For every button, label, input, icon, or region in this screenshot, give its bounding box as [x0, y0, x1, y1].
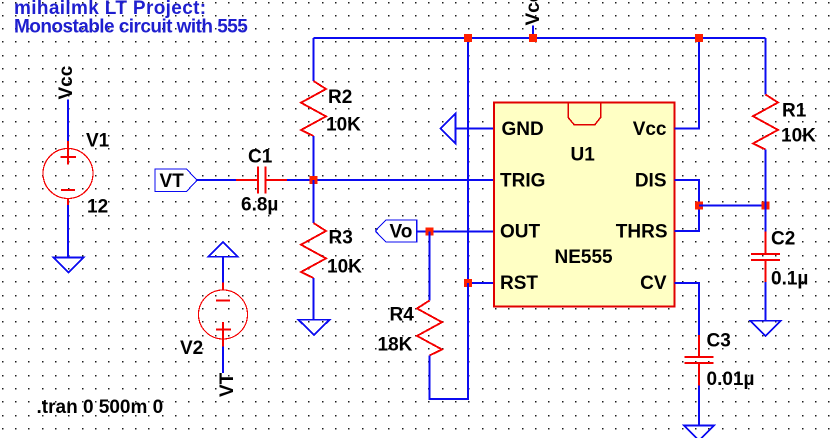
svg-text:Vcc: Vcc: [523, 0, 544, 26]
junction bus x699: [695, 34, 703, 42]
wire R3 bottom lead: [313, 278, 315, 320]
wire R3 top lead: [313, 180, 315, 223]
ground under R3: [299, 320, 330, 335]
resistor R3: [301, 223, 326, 278]
svg-text:R2: R2: [328, 87, 352, 108]
top Vcc bus wire: [314, 37, 766, 39]
wire R2 top lead: [313, 38, 315, 81]
title comment text: [14, 0, 248, 37]
ground under C3: [684, 426, 714, 438]
wire R1 top lead: [765, 38, 767, 95]
svg-text:NE555: NE555: [555, 247, 614, 268]
svg-text:.tran 0 500m 0: .tran 0 500m 0: [37, 397, 164, 418]
svg-text:0.01µ: 0.01µ: [707, 369, 755, 390]
svg-text:C2: C2: [771, 229, 795, 250]
junction R1/C2 node: [762, 202, 770, 210]
node Vcc label on bus: [523, 0, 544, 38]
svg-text:VT: VT: [217, 372, 238, 397]
wire Vcc pin to bus: [675, 38, 700, 129]
IC U1 NE555 body: [494, 103, 675, 307]
svg-text:Vo: Vo: [390, 222, 413, 243]
ground at GND pin (rotated, apex left): [441, 114, 456, 144]
voltage source V2: [199, 283, 248, 347]
svg-text:0.1µ: 0.1µ: [771, 269, 808, 290]
resistor R4: [417, 301, 442, 356]
wire RST: [468, 282, 494, 284]
wire CV pin: [675, 283, 700, 335]
wire: [67, 100, 69, 142]
wire RST/Vcc vertical: [467, 38, 469, 283]
svg-text:R3: R3: [329, 228, 353, 249]
svg-text:Vcc: Vcc: [633, 119, 667, 140]
junction OUT node: [426, 228, 434, 236]
ground under V1: [54, 258, 84, 273]
svg-text:GND: GND: [502, 119, 544, 140]
wire DIS/THRS to R1: [699, 205, 766, 207]
svg-text:THRS: THRS: [616, 222, 668, 243]
svg-text:12: 12: [87, 197, 108, 218]
inverted ground above V2: [208, 242, 238, 257]
junction on bus at Vcc label: [529, 34, 537, 42]
svg-text:R4: R4: [390, 305, 415, 326]
svg-text:10K: 10K: [327, 257, 362, 278]
capacitor C1: [236, 167, 287, 194]
wire R4 top lead: [429, 232, 431, 301]
capacitor C2: [751, 232, 780, 283]
capacitor C3: [685, 335, 714, 386]
wire C3 bottom: [698, 386, 700, 427]
wire C2 bottom: [765, 282, 767, 321]
svg-text:U1: U1: [571, 145, 596, 166]
wire R1 bottom lead: [765, 150, 767, 232]
junction RST node: [464, 279, 472, 287]
svg-text:V2: V2: [180, 338, 203, 359]
svg-text:TRIG: TRIG: [500, 171, 545, 192]
svg-text:10K: 10K: [326, 115, 361, 136]
svg-text:C3: C3: [707, 331, 731, 352]
svg-text:CV: CV: [640, 273, 667, 294]
wire R4 bottom to RST: [430, 283, 469, 399]
wire DIS/THRS: [675, 180, 700, 231]
wire: [222, 347, 224, 374]
node VT label at V2: [217, 372, 238, 397]
wire TRIG net: [287, 179, 494, 181]
svg-text:6.8µ: 6.8µ: [241, 195, 278, 216]
resistor R2: [301, 81, 326, 136]
svg-text:C1: C1: [248, 147, 273, 168]
svg-text:Vcc: Vcc: [56, 65, 77, 99]
svg-text:DIS: DIS: [635, 171, 667, 192]
wire: [197, 179, 236, 181]
wire: [67, 205, 69, 258]
junction DIS/THRS node: [695, 202, 703, 210]
port flag VT: [155, 169, 197, 192]
voltage source V1: [43, 141, 93, 205]
junction TRIG node: [310, 176, 318, 184]
wire R2 bottom lead: [313, 136, 315, 180]
svg-text:R1: R1: [782, 101, 807, 122]
node Vcc label at V1: [56, 65, 77, 99]
resistor R1: [753, 95, 778, 150]
svg-text:V1: V1: [86, 131, 110, 152]
wire OUT: [417, 231, 494, 233]
junction bus x468: [464, 34, 472, 42]
svg-text:10K: 10K: [781, 126, 816, 147]
svg-text:Monostable circuit with 555: Monostable circuit with 555: [14, 16, 248, 37]
svg-text:18K: 18K: [378, 335, 413, 356]
svg-text:OUT: OUT: [500, 222, 541, 243]
svg-text:VT: VT: [160, 171, 185, 192]
wire: [222, 257, 224, 283]
wire GND: [456, 128, 495, 130]
port flag Vo: [375, 220, 416, 243]
svg-text:RST: RST: [500, 273, 538, 294]
ground under C2: [751, 321, 781, 336]
